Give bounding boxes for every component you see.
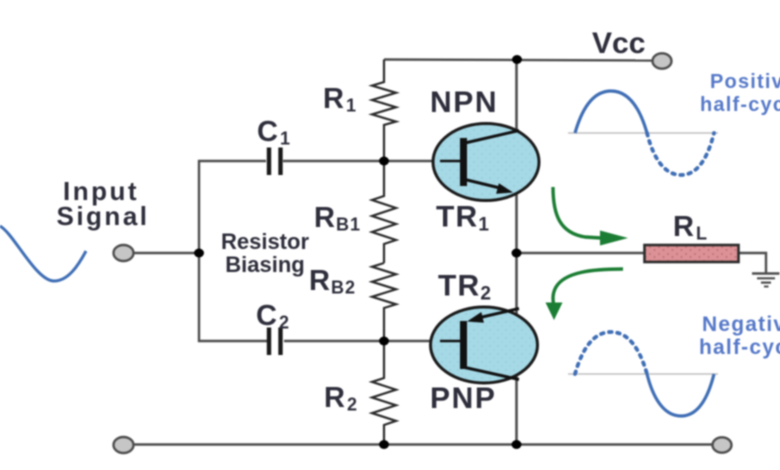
node: input/biasing junction: [194, 249, 204, 258]
transistor TR1 (NPN): [433, 124, 539, 201]
ground: [752, 274, 780, 287]
negative half-cycle axis: [568, 373, 718, 375]
svg-text:TR2: TR2: [438, 270, 491, 305]
wire RL to ground: [738, 253, 766, 273]
capacitor C2: [269, 328, 281, 356]
svg-text:R2: R2: [324, 382, 358, 415]
wire output node to RL: [517, 252, 647, 254]
wire C2 right to TR2 base: [284, 340, 461, 342]
svg-text:half-cycle: half-cycle: [699, 336, 780, 359]
wire left vertical branch: [198, 160, 200, 342]
wire C2 left: [198, 340, 267, 342]
resistor R1: [372, 60, 396, 162]
node: output junction: [512, 249, 522, 258]
svg-text:Resistor: Resistor: [221, 229, 309, 254]
svg-text:RL: RL: [673, 211, 708, 244]
svg-text:half-cycle: half-cycle: [700, 94, 780, 116]
terminal: Vcc: [653, 53, 672, 68]
svg-text:C2: C2: [256, 300, 290, 333]
svg-text:NPN: NPN: [430, 86, 498, 119]
node: R2 bottom rail junction: [379, 440, 389, 449]
svg-text:PNP: PNP: [430, 382, 497, 415]
node: TR2 collector bottom rail junction: [512, 440, 522, 449]
transistor TR2 (PNP): [431, 307, 538, 383]
svg-text:Vcc: Vcc: [592, 27, 645, 60]
negative half-cycle waveform dotted: [575, 332, 647, 374]
wire input terminal to biasing node: [133, 252, 200, 254]
resistor RL (load): [645, 245, 739, 262]
node: Vcc rail / collector junction: [512, 55, 522, 64]
wire bottom rail: [133, 443, 714, 445]
wire collector-emitter vertical bus: [515, 60, 518, 445]
terminal: input: [114, 245, 134, 261]
wire C1 right to TR1 base: [283, 160, 461, 162]
capacitor C1: [269, 148, 281, 176]
terminal: bottom left: [114, 437, 134, 453]
current flow arrow (negative half): [546, 269, 624, 320]
svg-text:Negative: Negative: [702, 313, 780, 336]
resistor RB1: [372, 161, 396, 263]
resistor RB2: [372, 263, 396, 341]
positive half-cycle waveform solid: [575, 91, 647, 133]
positive half-cycle axis: [568, 132, 718, 134]
svg-text:Signal: Signal: [56, 201, 149, 231]
svg-text:Biasing: Biasing: [225, 252, 304, 277]
svg-text:TR1: TR1: [436, 201, 489, 236]
node: R1/C1/TR1 base junction: [379, 157, 389, 166]
positive half-cycle waveform dotted: [647, 133, 714, 175]
svg-text:R1: R1: [323, 83, 357, 116]
wire top rail Vcc: [384, 60, 656, 61]
input signal waveform: [0, 226, 86, 281]
current flow arrow (positive half): [553, 187, 628, 246]
svg-text:RB1: RB1: [314, 202, 361, 235]
negative half-cycle waveform solid: [647, 374, 714, 416]
resistor R2: [372, 341, 396, 444]
svg-text:C1: C1: [257, 116, 291, 149]
node: RB2/C2/TR2 base junction: [379, 337, 389, 346]
svg-text:Positive: Positive: [710, 71, 780, 93]
wire C1 left: [198, 160, 266, 162]
terminal: bottom right: [713, 437, 732, 452]
svg-text:RB2: RB2: [309, 265, 356, 298]
